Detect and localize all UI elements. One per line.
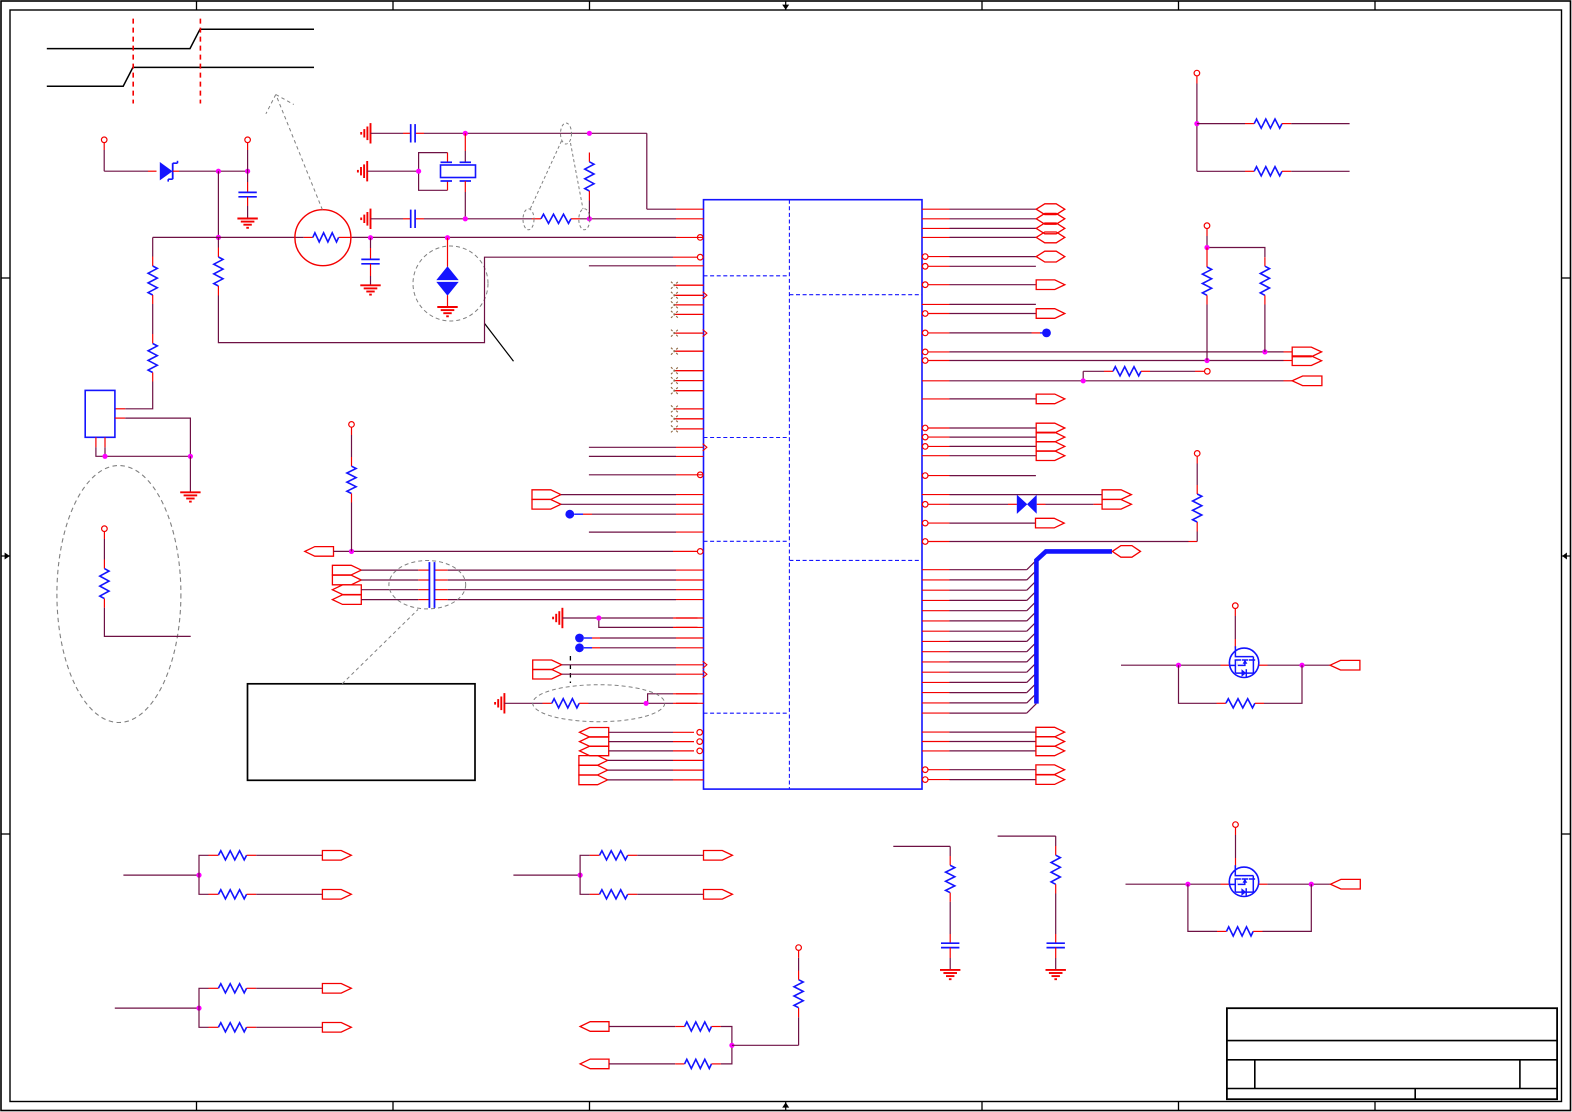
- junction N-net: [729, 1043, 734, 1048]
- wire C4 to ground: [370, 264, 372, 285]
- resistor R18: [794, 980, 803, 1008]
- net n266 (label only): [922, 264, 1036, 270]
- off-page connector J1: [1292, 347, 1321, 357]
- wire A1 to U1: [334, 550, 698, 552]
- off-page connector A1 (left): [305, 547, 334, 557]
- capacitor array bars: [429, 562, 434, 608]
- off-page connector C2: [533, 669, 562, 679]
- test point TP2: [575, 643, 703, 652]
- ground G3 (XTAL2 cap): [361, 209, 370, 229]
- wire R19 to junction: [712, 1027, 732, 1046]
- ground G6: [437, 307, 457, 316]
- wire R3 to U1: [218, 257, 697, 342]
- net n313 with connector: [922, 309, 1064, 319]
- wire XTAL1 net: [371, 133, 677, 209]
- timing diagram trace A: [47, 67, 314, 86]
- off-page connector N1 (input): [580, 1022, 609, 1032]
- off-page connector Q1 (input): [1330, 660, 1360, 670]
- junction XTAL1-R: [587, 131, 592, 136]
- resistor R7 (XTAL2 series): [541, 214, 571, 223]
- wire R2 to U2 pin1: [115, 373, 153, 409]
- magnifier red circle: [295, 210, 351, 266]
- off-page connector group D (3x to U1): [580, 728, 703, 756]
- chevron pin marks: [703, 292, 707, 451]
- off-page connector J3 (input): [1292, 376, 1322, 386]
- connector pin P5: [1233, 603, 1239, 616]
- wire Q1 gate net: [1121, 664, 1229, 666]
- resistor R22: [1051, 855, 1060, 884]
- black leader line: [485, 323, 514, 361]
- capacitor C3: [238, 192, 256, 196]
- wire R4 exit: [104, 599, 190, 637]
- wire crystal mid loop: [367, 153, 447, 191]
- wire N1 to R19: [609, 1026, 685, 1028]
- bidirectional connector group H (4x): [922, 204, 1065, 243]
- resistor fan-out group 1: [123, 851, 351, 900]
- pin circle U1 n551: [697, 549, 703, 555]
- data bus (thick): [1036, 551, 1112, 703]
- pin stub U1 main rail: [676, 235, 704, 241]
- transistor Q2 (MOSFET): [1229, 865, 1258, 896]
- annotation box: [248, 684, 476, 781]
- junction U2 gnd a: [102, 454, 107, 459]
- detail ellipse around cap array: [389, 561, 466, 609]
- wire C4 down: [370, 238, 372, 260]
- main rail wire right: [218, 236, 676, 238]
- resistor R20: [685, 1059, 712, 1068]
- wire RC2 feed: [998, 836, 1056, 855]
- U2 pin2 wire to ground rail: [115, 418, 190, 456]
- off-page connector group B (4x): [332, 565, 361, 604]
- off-page connector F1: [532, 490, 561, 500]
- resistor R5 (in magnifier): [313, 233, 339, 242]
- junction rail-TVS: [445, 235, 450, 240]
- ground G9: [495, 693, 504, 713]
- connector pin P4: [1204, 223, 1210, 236]
- main rail wire left: [153, 237, 219, 266]
- connector U2 (blue box): [85, 390, 115, 437]
- title block: [1227, 1008, 1557, 1099]
- junction Q1 gate: [1176, 663, 1181, 668]
- transistor Q1 (MOSFET): [1229, 646, 1258, 677]
- test point TP1: [575, 634, 703, 643]
- ground G5: [360, 285, 380, 294]
- ground G2 (crystal mid): [358, 161, 367, 181]
- wire R20 to junction: [712, 1045, 732, 1064]
- wire F1 to U1: [561, 494, 704, 496]
- off-page connector group K (4x): [922, 423, 1065, 460]
- connector pin P6: [1233, 822, 1239, 835]
- junction D1 node B: [245, 169, 250, 174]
- wire R22 to C6: [1055, 884, 1057, 943]
- junction n360-R12: [1204, 358, 1209, 363]
- net n475 (label only): [922, 473, 1036, 479]
- detail dashed ellipse: [57, 466, 181, 723]
- wire Q1 source to arrow: [1259, 664, 1330, 666]
- wire net n474: [589, 472, 704, 478]
- junction U2 gnd b: [188, 454, 193, 459]
- IC U1 body with internal section dividers: [704, 200, 923, 789]
- wire G9 to R9: [504, 702, 551, 704]
- resistor fan-out group 3: [513, 851, 732, 900]
- wire P2 down: [247, 150, 249, 171]
- net n504 diode leg: [922, 502, 1102, 508]
- wire P6 to Q2 drain: [1235, 835, 1237, 867]
- capacitor C5: [941, 943, 959, 947]
- no-connect pins U1 left (12x): [671, 282, 704, 433]
- TVS D2 bidirectional: [436, 266, 458, 296]
- wire Q2 gate net: [1126, 883, 1230, 885]
- callout dashed ellipse small top: [561, 123, 572, 144]
- wire C2 to U1: [562, 671, 707, 678]
- wire C1 to U1: [562, 661, 707, 668]
- wire D1 to junctions: [179, 170, 248, 172]
- test point TP3: [565, 510, 703, 519]
- net n371 resistor leg: [1083, 367, 1210, 381]
- wire row 171 with R11: [1197, 167, 1350, 176]
- wire crystal top lead: [464, 133, 466, 162]
- junction Q2 source: [1309, 882, 1314, 887]
- capacitor C1: [411, 124, 415, 142]
- off-page connector group N (2x): [922, 765, 1064, 785]
- timing cursor dashed line 2: [199, 19, 201, 104]
- crystal Y1: [441, 162, 476, 181]
- bus entry wires (15x): [922, 560, 1037, 713]
- wire G8 to U1 pins: [562, 618, 703, 627]
- wire P1 to D1: [104, 150, 156, 171]
- connector pin P7: [1194, 70, 1200, 83]
- net n351 wire: [922, 349, 1292, 355]
- bidirectional bus connector: [1112, 546, 1140, 558]
- off-page connector Q2 (input): [1331, 879, 1361, 889]
- wire XTAL2 net: [371, 218, 677, 220]
- resistor R8 with pullup pin: [347, 422, 356, 552]
- junction rail-C4: [368, 235, 373, 240]
- connector pin P1: [101, 137, 107, 150]
- wire R21 to C5: [949, 893, 951, 943]
- net n256 with connector: [922, 251, 1064, 262]
- wire P3 to R4: [103, 539, 105, 569]
- wire TVS to ground: [447, 295, 449, 306]
- off-page connector N2 (input): [580, 1059, 609, 1069]
- wire junction to R18: [732, 1008, 799, 1046]
- wire crystal bottom lead: [464, 181, 466, 219]
- callout dashed cone lines: [530, 141, 584, 211]
- timing diagram trace B: [47, 29, 314, 48]
- wire node B to C3: [247, 171, 249, 192]
- ground G11: [1046, 970, 1066, 979]
- wire net n532: [589, 531, 704, 533]
- wire C5 to ground: [949, 948, 951, 970]
- junction G8: [596, 615, 601, 620]
- dashed circle around TVS: [413, 246, 488, 321]
- connector pin P3: [102, 526, 108, 539]
- off-page connector J2: [1292, 356, 1321, 366]
- wire node A down to main rail: [217, 171, 219, 237]
- ground G1 (XTAL1 cap): [361, 123, 370, 143]
- capacitor C6: [1047, 943, 1065, 947]
- junction XTAL1-crystal: [463, 131, 468, 136]
- resistor R4: [100, 569, 109, 599]
- net n541 resistor to pin: [922, 451, 1201, 545]
- pin stub U1 XTAL2: [676, 218, 704, 220]
- wire row 123 with R10: [1197, 119, 1350, 128]
- ground G7: [180, 492, 200, 501]
- capacitor C4: [361, 259, 379, 263]
- pin circle U1 n257: [697, 254, 703, 260]
- wire net n456: [589, 455, 704, 457]
- resistor R1: [148, 266, 157, 295]
- resistor R12: [1202, 248, 1211, 361]
- resistor R17 loop: [1188, 884, 1311, 936]
- capacitor C2: [411, 210, 415, 228]
- off-page connector group E (3x to U1): [579, 756, 704, 785]
- callout dashed ellipse lens left: [523, 209, 534, 230]
- junction XTAL2-R6: [587, 216, 592, 221]
- wire P5 to Q1 drain: [1234, 616, 1236, 648]
- wire R9 to U1 rows: [579, 694, 703, 704]
- off-page connector group M (3x): [922, 727, 1065, 755]
- net n284 with connector: [922, 280, 1064, 290]
- net n304 (label only): [922, 303, 1036, 305]
- wire P7 node: [1196, 84, 1198, 172]
- junction n351-R13: [1262, 349, 1267, 354]
- junction R9 net: [644, 701, 649, 706]
- resistor R16 loop: [1179, 665, 1303, 708]
- wire TVS top: [447, 238, 449, 267]
- resistor R13: [1260, 266, 1269, 352]
- ground G10: [940, 970, 960, 979]
- wire N2 to R20: [609, 1063, 685, 1065]
- diode D1 (zener): [160, 161, 179, 182]
- off-page connector C1: [533, 660, 562, 670]
- pin stub U1 XTAL1: [676, 208, 704, 210]
- net n360 wire: [922, 358, 1292, 364]
- resistor fan-out group 2: [115, 984, 351, 1033]
- dashed leader to bus-cap detail: [342, 610, 418, 684]
- black dashed separator: [569, 656, 571, 683]
- junction Q2 gate: [1185, 882, 1190, 887]
- junction XTAL2-crystal: [463, 216, 468, 221]
- dashed annotation arrow to magnifier: [266, 95, 323, 210]
- resistor R6 (XTAL bias): [585, 133, 594, 219]
- junction n380: [1081, 378, 1086, 383]
- junction A1 net: [349, 549, 354, 554]
- 4-wire bus to U1: [361, 570, 703, 600]
- test point TP4: [922, 329, 1051, 338]
- net n398 with connector: [922, 394, 1065, 404]
- resistor R9: [552, 699, 579, 708]
- wire Q2 source to arrow: [1259, 883, 1331, 885]
- ground G4: [237, 219, 257, 228]
- callout dashed ellipse lens right: [579, 209, 590, 230]
- wire R1-R2: [152, 295, 154, 344]
- connector pin P2: [245, 137, 251, 150]
- net n380 wire: [922, 380, 1292, 382]
- junction P4: [1204, 245, 1209, 250]
- wire F2 to U1: [561, 503, 704, 505]
- junction main rail A: [216, 235, 221, 240]
- U2 bottom pin wires: [96, 437, 190, 456]
- net n523 with connector: [922, 518, 1064, 528]
- resistor R19: [685, 1022, 712, 1031]
- wire P4 node: [1207, 236, 1265, 266]
- resistor R3: [214, 237, 223, 295]
- wire R18 to pin P8: [796, 945, 802, 980]
- wire net n447: [589, 446, 704, 448]
- off-page connector L2: [1102, 500, 1131, 510]
- junction Q1 source: [1299, 663, 1304, 668]
- off-page connector F2: [532, 500, 561, 510]
- resistor R2: [148, 344, 157, 373]
- junction D1 node A: [216, 169, 221, 174]
- wire RC1 feed: [893, 846, 950, 865]
- wire C6 to ground: [1055, 948, 1057, 970]
- junction P7: [1194, 121, 1199, 126]
- wire to ground G7: [189, 456, 191, 492]
- detail ellipse around R9: [533, 685, 665, 722]
- junction crystal mid: [416, 169, 421, 174]
- timing cursor dashed line 1: [132, 19, 134, 104]
- ground G8: [553, 608, 562, 628]
- resistor R21: [946, 865, 955, 892]
- wire net label stub 266: [589, 265, 704, 267]
- wire C3 to ground: [247, 197, 249, 218]
- net n494 with connector: [922, 490, 1132, 500]
- diode D3 bidirectional: [1017, 495, 1037, 514]
